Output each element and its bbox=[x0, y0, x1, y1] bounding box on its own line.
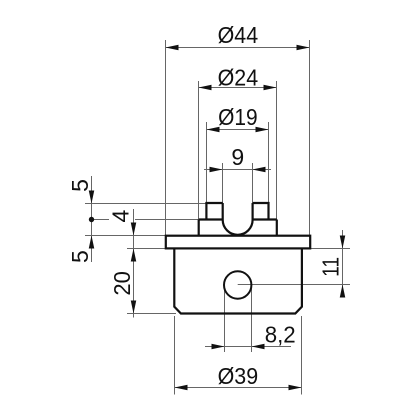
part: cross hole bbox=[224, 271, 251, 298]
extension line body-right (O39) bbox=[301, 316, 303, 395]
extension line slot 9 right bbox=[252, 163, 254, 203]
part: step top left bbox=[199, 218, 223, 220]
svg-text:11: 11 bbox=[318, 257, 344, 277]
extension line flange-bottom (right) bbox=[310, 248, 350, 250]
extension line body-left (O39) bbox=[174, 316, 176, 395]
extension line hole-left (8,2) bbox=[224, 286, 226, 352]
svg-text:Ø39: Ø39 bbox=[218, 363, 259, 389]
part: O24 block right side bbox=[276, 220, 278, 236]
svg-text:9: 9 bbox=[231, 144, 244, 170]
extension line hole-center (right) bbox=[238, 284, 350, 286]
part: step top right bbox=[253, 218, 277, 220]
dimension line 8,2 (hole) bbox=[205, 321, 296, 349]
extension line O24 right bbox=[276, 81, 278, 220]
part: body with bottom chamfers bbox=[174, 248, 302, 313]
extension line prong-top (left) bbox=[85, 203, 207, 205]
extension line O19 right bbox=[268, 122, 270, 203]
dimension line O44 bbox=[166, 22, 310, 50]
svg-text:Ø24: Ø24 bbox=[218, 65, 259, 91]
dimension line 9 (slot width) bbox=[204, 144, 271, 172]
dimension line 4 / 20 (left) bbox=[108, 209, 137, 318]
dimension line 5 / 5 (left chain) bbox=[67, 176, 94, 263]
part: U slot bbox=[223, 203, 253, 235]
svg-text:4: 4 bbox=[108, 209, 134, 222]
extension line hole-right (8,2) bbox=[251, 286, 253, 352]
svg-text:5: 5 bbox=[67, 250, 93, 263]
extension line O24 left bbox=[198, 81, 200, 220]
extension line slot 9 left bbox=[222, 163, 224, 203]
dimension line O24 bbox=[199, 65, 277, 91]
svg-text:8,2: 8,2 bbox=[265, 321, 296, 347]
extension line body-bottom (left) bbox=[127, 313, 176, 315]
svg-text:20: 20 bbox=[109, 271, 135, 296]
dimension line O19 bbox=[207, 104, 269, 132]
svg-text:5: 5 bbox=[67, 179, 93, 192]
extension line flange-right (O44) bbox=[309, 40, 311, 236]
part: O24 block left side bbox=[198, 220, 200, 236]
extension line O19 left bbox=[206, 122, 208, 203]
extension line step-top (left, broken at label 4) bbox=[92, 219, 109, 221]
dimension line O39 bbox=[175, 363, 302, 390]
dimension line 11 (right) bbox=[318, 230, 346, 298]
extension line flange-left (O44) bbox=[165, 40, 167, 236]
part: left prong bbox=[206, 203, 222, 220]
svg-text:Ø19: Ø19 bbox=[218, 104, 258, 130]
svg-text:Ø44: Ø44 bbox=[218, 22, 259, 48]
part: right prong bbox=[253, 203, 269, 220]
part: flange bbox=[166, 236, 310, 249]
extension line flange-bottom (left) bbox=[127, 248, 166, 250]
extension line flange-top (left) bbox=[85, 235, 166, 237]
